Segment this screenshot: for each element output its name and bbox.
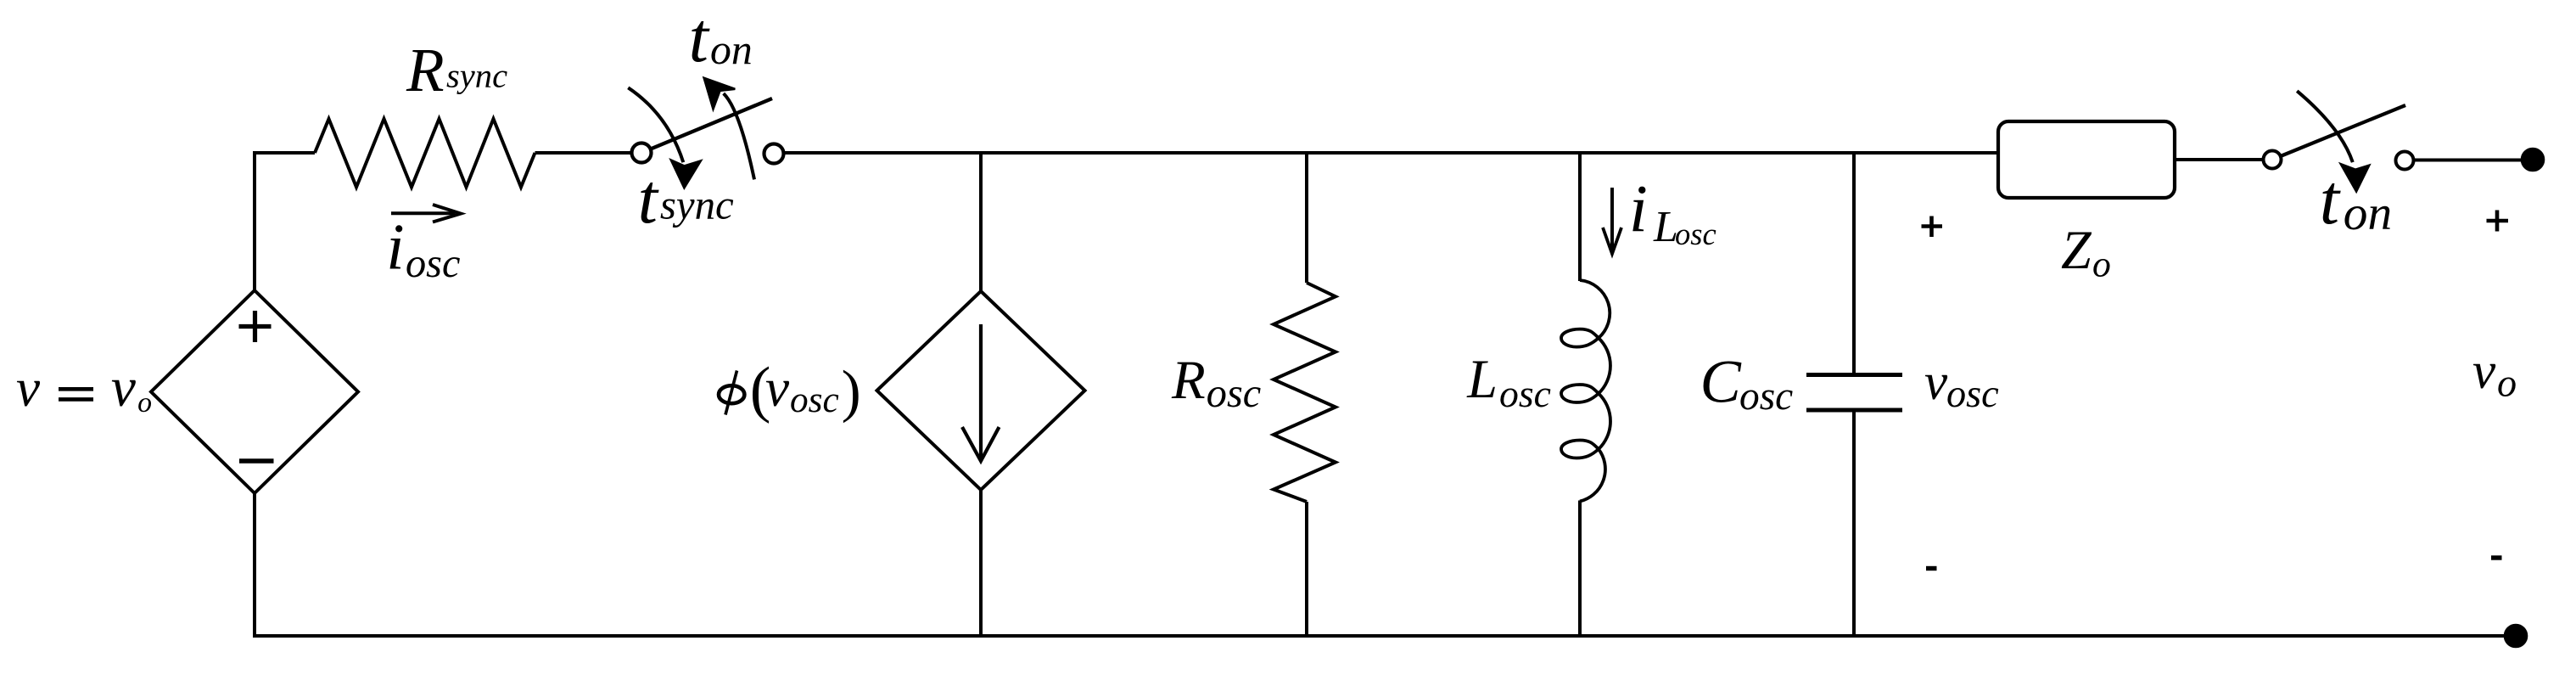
- svg-text:osc: osc: [1739, 374, 1793, 419]
- svg-text:i: i: [1629, 172, 1648, 247]
- switch S2 left contact circle: [2264, 151, 2282, 169]
- svg-text:t: t: [2320, 160, 2341, 239]
- inductor current arrow i_L shaft: [1610, 188, 1614, 251]
- svg-text:osc: osc: [1499, 372, 1551, 415]
- label v_osc: [1924, 353, 1999, 416]
- label i_osc: [386, 211, 460, 287]
- svg-text:on: on: [2344, 187, 2392, 240]
- resistor R_sync zigzag: [315, 119, 535, 187]
- output minus sign: [2491, 555, 2502, 559]
- equals sign of v=vo: [59, 389, 93, 399]
- label R_sync: [406, 36, 507, 104]
- svg-text:L: L: [1466, 349, 1498, 409]
- wire L_osc branch bottom: [1578, 501, 1582, 637]
- svg-text:o: o: [2092, 245, 2111, 285]
- wire bottom rail: [253, 634, 2516, 638]
- svg-text:on: on: [710, 26, 753, 73]
- switch S1 left contact circle: [632, 143, 652, 163]
- switch S1 blade: [651, 98, 772, 149]
- svg-text:osc: osc: [1207, 371, 1261, 416]
- dependent voltage source E1 diamond v=vo: [151, 290, 358, 493]
- wire top rail from S1 to Zo block: [784, 151, 1999, 155]
- switch S2 closing arc toward t_on: [2297, 91, 2353, 162]
- svg-text:R: R: [406, 36, 445, 104]
- svg-text:sync: sync: [660, 182, 734, 228]
- node output top terminal dot: [2522, 149, 2544, 171]
- wire from Z_o to switch S2: [2175, 158, 2264, 161]
- wire current-source branch top: [979, 153, 983, 291]
- wire R_osc branch bottom: [1305, 502, 1308, 636]
- capacitor plus sign: [1922, 216, 1943, 238]
- voltage source minus sign: [239, 458, 274, 464]
- inductor current arrowhead open V: [1603, 228, 1621, 254]
- svg-text:): ): [842, 358, 861, 424]
- label vo of v=vo: [111, 357, 152, 419]
- current arrow i_osc open V head: [433, 205, 461, 222]
- label L_osc: [1466, 349, 1551, 415]
- svg-text:R: R: [1171, 350, 1206, 411]
- capacitor C_osc bottom plate: [1806, 408, 1902, 413]
- svg-text:v: v: [111, 357, 137, 419]
- capacitor C_osc top plate: [1806, 373, 1902, 377]
- svg-text:Z: Z: [2061, 220, 2092, 280]
- label R_osc: [1171, 350, 1261, 416]
- svg-text:v: v: [2472, 342, 2496, 400]
- wire R_osc branch top: [1305, 153, 1308, 283]
- switch S1 opening arc toward t_on: [724, 93, 754, 179]
- current source arrowhead open V: [962, 427, 1000, 461]
- svg-text:C: C: [1700, 346, 1742, 415]
- capacitor minus sign: [1926, 566, 1937, 571]
- label t_sync: [638, 160, 734, 239]
- svg-text:t: t: [638, 160, 659, 239]
- svg-text:i: i: [386, 211, 404, 284]
- phi symbol ellipse of phi(v_osc): [719, 385, 744, 403]
- current arrow i_osc shaft: [391, 211, 455, 215]
- svg-text:v: v: [16, 358, 41, 418]
- svg-text:v: v: [765, 358, 790, 418]
- voltage source plus sign: [239, 311, 272, 342]
- inductor L_osc coil: [1561, 280, 1610, 502]
- switch S1 t_sync arrowhead: [671, 160, 701, 188]
- svg-text:sync: sync: [446, 57, 507, 95]
- switch S1 right contact circle: [764, 144, 784, 164]
- svg-text:o: o: [137, 387, 152, 419]
- switch S2 t_on arrowhead: [2341, 164, 2369, 191]
- switch S2 right contact circle: [2396, 152, 2414, 170]
- label t_on at switch S2: [2320, 160, 2392, 240]
- label i_L_osc: [1629, 172, 1716, 251]
- svg-text:o: o: [2497, 362, 2517, 405]
- node output bottom terminal dot: [2505, 625, 2527, 647]
- impedance block Z_o: [1998, 121, 2175, 198]
- label C_osc: [1700, 346, 1794, 419]
- switch S1 closing arc toward t_sync: [628, 87, 683, 162]
- svg-text:osc: osc: [1946, 373, 1999, 416]
- svg-text:v: v: [1924, 353, 1948, 411]
- resistor R_osc zigzag: [1274, 283, 1336, 502]
- label v of v=vo: [16, 358, 41, 418]
- wire C_osc branch bottom: [1852, 410, 1856, 636]
- wire from S2 to output terminal: [2414, 159, 2523, 162]
- label Z_o: [2061, 220, 2111, 285]
- switch S2 blade: [2281, 105, 2405, 156]
- switch S1 t_on arrowhead: [704, 78, 736, 110]
- svg-text:osc: osc: [790, 379, 839, 420]
- wire bottom-left vertical from source to bottom rail: [253, 493, 256, 636]
- current source arrow shaft: [979, 324, 983, 458]
- label v_o output: [2472, 342, 2517, 405]
- label t_on at switch S1: [689, 0, 753, 77]
- wire current-source branch bottom: [979, 490, 983, 636]
- output plus sign: [2487, 211, 2509, 232]
- svg-text:osc: osc: [1675, 216, 1716, 251]
- phi symbol slash: [725, 371, 737, 415]
- wire C_osc branch top: [1852, 153, 1856, 374]
- dependent current source G1 diamond phi(v_osc): [877, 291, 1085, 490]
- label (v_osc) argument of phi: [750, 355, 861, 424]
- wire L_osc branch top: [1578, 153, 1582, 281]
- svg-text:t: t: [689, 0, 710, 77]
- svg-text:osc: osc: [406, 241, 460, 286]
- wire from R_sync to switch S1: [535, 151, 632, 155]
- wire top-left vertical from source to top rail: [255, 153, 315, 291]
